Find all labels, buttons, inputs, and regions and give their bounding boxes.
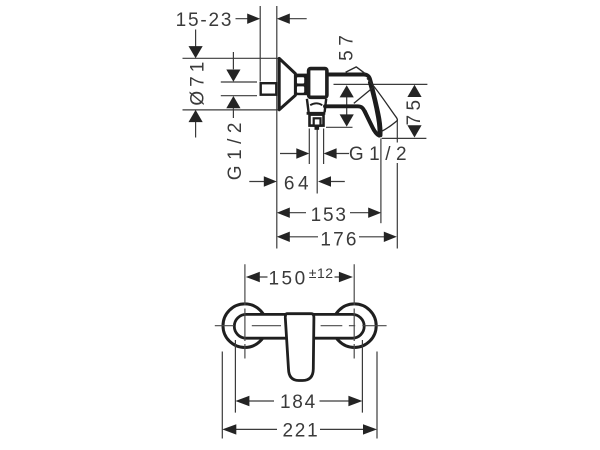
outlet shoulder line: [307, 112, 326, 115]
arrow: 75 bottom: [407, 125, 421, 137]
arrow: 64 left: [264, 176, 277, 186]
texts of side view: [176, 10, 425, 251]
wire: 75 bottom reference line: [382, 137, 427, 139]
svg-text:Ø71: Ø71: [188, 58, 209, 106]
svg-text:153: 153: [311, 205, 348, 226]
outlet nut: [310, 115, 324, 126]
svg-text:15-23: 15-23: [176, 10, 234, 31]
arrow: G1/2 outlet right: [324, 148, 337, 158]
handle blade far edge outline: [367, 78, 397, 131]
arrow: O71 top: [189, 46, 203, 58]
wire: 57 bottom reference line: [326, 126, 353, 128]
front handle: [285, 314, 314, 381]
svg-text:221: 221: [282, 420, 319, 441]
union nut window upper: [297, 77, 304, 83]
arrow: 153 left: [277, 208, 290, 218]
handle lever diagonal thickening upper: [370, 83, 380, 133]
handle lever bottom thick stroke: [325, 106, 379, 135]
wire: 75 top reference line: [334, 83, 428, 85]
svg-text:±12: ±12: [309, 265, 334, 281]
wire: G1/2 outlet dimension tails: [280, 153, 349, 155]
faucet front view: [223, 304, 376, 381]
arrow: 75 top: [407, 85, 421, 97]
right escutcheon circle: [333, 304, 377, 348]
front view center lines: [215, 264, 387, 358]
arrow: O71 bottom: [189, 110, 203, 122]
union nut window lower: [297, 86, 304, 92]
wall flange cone: [279, 58, 295, 109]
svg-text:G1/2: G1/2: [349, 144, 412, 165]
wire: extension line from handle far tip for 176: [396, 120, 398, 249]
wire: 176 dimension line: [289, 236, 385, 238]
wire: O71 dimension tails: [195, 30, 197, 138]
wall supply stub: [261, 83, 277, 95]
wire: horizontal center line: [215, 325, 387, 327]
arrow: 15-23 right: [277, 14, 290, 24]
wire: extension line from lever tip for 153: [380, 139, 382, 224]
wire: right vertical center line: [353, 264, 355, 358]
svg-text:57: 57: [337, 31, 358, 61]
wire: outlet thread extension lines: [309, 129, 323, 165]
handle lever top thick stroke: [328, 75, 381, 136]
wire: 184 extension lines: [235, 340, 362, 413]
front view arrowheads: [222, 272, 377, 435]
arrow: 153 right: [368, 208, 381, 218]
arrow: 15-23 left: [247, 14, 260, 24]
arrow: 221 right: [363, 424, 377, 434]
wire: extension line left of 15-23: [259, 6, 261, 82]
handle rear peak outline: [346, 67, 366, 74]
arrow: G1/2 outlet left: [296, 148, 309, 158]
outlet nipple: [315, 126, 320, 130]
arrow: 57 top: [340, 85, 354, 97]
outlet taper dome arc: [310, 103, 322, 105]
wire: 15-23 dimension tails: [236, 18, 307, 20]
wire: 221 extension lines: [222, 352, 377, 439]
union nut block: [295, 74, 308, 96]
arrow: 176 left: [277, 232, 290, 242]
arrow: G1/2 supply bottom: [226, 96, 240, 108]
wire: outlet center line: [316, 130, 318, 194]
outlet taper right edge: [325, 99, 327, 112]
wire: O71 top reference line: [183, 57, 280, 59]
svg-text:64: 64: [284, 174, 312, 195]
texts of front view: [268, 265, 333, 442]
arrow: 184 left: [235, 396, 249, 406]
wire: G1/2 wall-supply reference lines: [221, 82, 257, 96]
arrow: 221 left: [222, 424, 236, 434]
faucet side view: [261, 58, 398, 135]
wire: 64 dimension tails: [249, 181, 344, 183]
wire: 150 dimension line: [259, 276, 341, 278]
svg-text:176: 176: [320, 229, 358, 250]
wire: 57 dimension line: [346, 97, 348, 116]
wire: 184 dimension line: [249, 400, 350, 402]
arrow: 184 right: [348, 396, 362, 406]
left escutcheon circle: [223, 304, 267, 348]
svg-text:G1/2: G1/2: [225, 117, 246, 180]
svg-text:184: 184: [280, 392, 317, 413]
wire: 153 dimension line: [289, 212, 369, 214]
wire: G1/2 wall-supply dimension tails: [232, 52, 234, 118]
outlet inner square: [314, 118, 321, 125]
arrow: 150 left: [246, 272, 260, 282]
arrow: G1/2 supply top: [226, 70, 240, 82]
body bar: [234, 314, 364, 338]
arrowheads of side view dimensions: [189, 14, 422, 243]
front view dimension lines: [222, 277, 377, 439]
wire: O71 bottom reference line: [183, 109, 280, 111]
outlet taper left edge: [307, 99, 309, 112]
wire: 221 dimension line: [236, 428, 364, 430]
wire: wall reference line: [276, 6, 278, 249]
arrow: 64 right: [318, 176, 331, 186]
svg-text:150: 150: [268, 268, 307, 289]
arrow: 176 right: [384, 232, 397, 242]
valve body: [309, 69, 327, 98]
wire: left vertical center line: [244, 264, 246, 358]
handle blade crease line: [354, 86, 375, 103]
arrow: 150 right: [339, 272, 353, 282]
arrow: 57 bottom: [340, 114, 354, 126]
svg-text:75: 75: [404, 95, 425, 125]
handle lever diagonal thickening lower: [365, 111, 379, 135]
